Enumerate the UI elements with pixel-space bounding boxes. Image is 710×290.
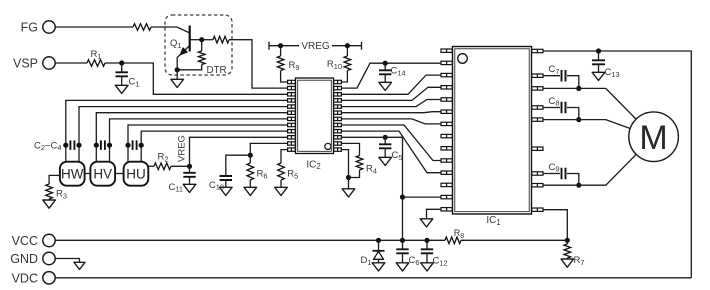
ground (C12) xyxy=(421,263,434,271)
wire GND to ground xyxy=(55,259,79,263)
wire VSP to R1 xyxy=(55,62,87,64)
resistor R2 xyxy=(154,163,171,170)
wire IC1 pin 14 to ground xyxy=(427,209,442,219)
wire HW-HV link xyxy=(85,173,91,175)
node R4 ground xyxy=(346,175,351,180)
node phase V / C8 xyxy=(576,117,581,122)
wire IC2 R12 to ground node xyxy=(341,150,349,178)
capacitor C8 xyxy=(543,107,560,109)
node R6/C10 xyxy=(248,153,253,158)
capacitor C5 xyxy=(384,137,386,144)
node D1 xyxy=(376,238,381,243)
wire VSP to IC2 pin 3 xyxy=(122,63,289,94)
node VREG/R9 xyxy=(278,43,283,48)
hall element HU xyxy=(124,162,149,186)
output resistor of DTR xyxy=(202,39,213,41)
capacitor C11 xyxy=(189,166,191,173)
wire phase V to motor xyxy=(543,120,630,129)
resistor R8 xyxy=(445,237,461,244)
node C12 xyxy=(424,238,429,243)
ground (C5) xyxy=(379,157,392,165)
svg-text:HW: HW xyxy=(61,167,84,182)
node base of Q1 xyxy=(199,37,204,42)
node C13 xyxy=(596,48,601,53)
wire IC2 pin 11 to R6 node xyxy=(250,143,288,155)
wire IC2 R5 to IC1 pin 5 xyxy=(341,100,441,107)
op-amp/driver IC2 package xyxy=(288,78,342,154)
svg-text:FG: FG xyxy=(21,21,38,35)
node hall cap 5 xyxy=(125,143,130,148)
wire DTR output to IC2 pin 2 xyxy=(229,40,289,88)
terminal VDC xyxy=(43,272,55,284)
node C14 xyxy=(383,61,388,66)
svg-text:C2~C4: C2~C4 xyxy=(34,140,62,152)
wire hall bus line 6 xyxy=(141,131,288,162)
svg-text:HV: HV xyxy=(93,167,112,182)
ground (IC1 pin14) xyxy=(420,219,433,227)
node hall cap 2 xyxy=(76,143,81,148)
wire VCC rail xyxy=(55,239,445,241)
resistor R5 xyxy=(278,163,285,180)
resistor R6 xyxy=(249,155,251,163)
terminal VCC xyxy=(43,234,55,246)
base resistor of DTR xyxy=(201,40,203,51)
capacitor C7 xyxy=(543,75,560,77)
capacitor C4 (HU pair) xyxy=(133,140,137,150)
wire hall bus line 5 xyxy=(128,125,289,162)
resistor R7 xyxy=(566,240,568,244)
capacitor C3 (HV pair) xyxy=(101,140,105,150)
ground (R5) xyxy=(275,187,288,195)
transistor Q1 xyxy=(177,26,202,70)
node C6 xyxy=(400,238,405,243)
node R2/C11/VREG xyxy=(187,164,192,169)
capacitor C13 xyxy=(598,51,600,60)
wire IC1 bottom right pin down to R7 node xyxy=(543,210,567,241)
terminal VSP xyxy=(43,57,55,69)
capacitor C12 xyxy=(426,240,428,249)
wire IC2 R6 to IC1 pin 6 xyxy=(341,112,441,113)
ground (C1) xyxy=(115,85,128,93)
node hall cap 3 xyxy=(94,143,99,148)
wire IC2 R10 through C5 down to IC1 pin 13 xyxy=(341,137,403,240)
DTR dashed box xyxy=(165,15,232,75)
wire hall bus line 3 xyxy=(96,113,288,162)
wire IC2 R4 to IC1 pin 4 xyxy=(341,87,441,100)
ground (D1) xyxy=(372,263,385,271)
node hall cap 6 xyxy=(139,143,144,148)
ground (R3) xyxy=(43,200,56,208)
ground (GND terminal) xyxy=(74,262,85,269)
node phase U / C9 xyxy=(576,183,581,188)
svg-text:VDC: VDC xyxy=(12,271,38,285)
terminal FG xyxy=(43,21,55,33)
svg-text:VREG: VREG xyxy=(301,41,330,52)
wire HV-HU link xyxy=(115,173,124,175)
resistor R4 xyxy=(356,156,363,171)
svg-text:DTR: DTR xyxy=(207,65,227,76)
diode D1 (zener to ground) xyxy=(378,240,380,251)
node hall cap 1 xyxy=(63,143,68,148)
wire VDC rail xyxy=(55,277,691,279)
wire IC2 R3 to IC1 pin 3 xyxy=(341,75,441,94)
node hall cap 4 xyxy=(107,143,112,148)
ground (C14) xyxy=(379,82,392,90)
capacitor C14 xyxy=(384,63,386,70)
wire IC2 R11 to R4 xyxy=(341,143,360,155)
node IC1 pin13 branch xyxy=(400,195,405,200)
wire IC2 R9 to IC1 pin 11 xyxy=(341,131,441,173)
motor driver IC1 package xyxy=(441,47,543,215)
ground (C10) xyxy=(220,187,233,195)
node emitter junction xyxy=(175,67,180,72)
resistor R3 xyxy=(46,184,53,199)
wire FG to resistor xyxy=(55,26,133,28)
wire IC2 pin to C14 line to IC1 xyxy=(341,63,441,88)
wire phase W to motor xyxy=(543,88,636,119)
wire hall bus line 1 xyxy=(66,100,289,161)
wire IC2 R8 to IC1 pin 10 xyxy=(341,125,441,161)
wire IC2 R7 to IC1 pin 7 xyxy=(341,119,441,124)
VREG rail xyxy=(269,42,299,50)
resistor R1 xyxy=(87,60,105,67)
resistor R10 xyxy=(346,46,348,56)
resistor R9 xyxy=(280,46,282,56)
hall element HW xyxy=(60,162,85,186)
svg-text:HU: HU xyxy=(126,167,146,182)
resistor (FG series) xyxy=(133,24,151,31)
motor M xyxy=(629,112,679,162)
capacitor C9 xyxy=(543,173,560,175)
capacitor C6 xyxy=(402,240,404,249)
node C5 xyxy=(383,135,388,140)
wire IC2 pin 12 to R5 xyxy=(281,150,289,163)
wire R1 to node xyxy=(105,62,122,64)
capacitor C1 xyxy=(121,63,123,72)
node VSP/C1 xyxy=(119,60,124,65)
wire hall bus line 2 xyxy=(79,107,289,162)
capacitor C2 (HW pair) xyxy=(70,140,74,150)
ground (Q1 emitter) xyxy=(176,70,178,80)
ground (R7) xyxy=(561,259,574,267)
wire resistor to Q1 collector xyxy=(151,27,190,33)
node phase W / C7 xyxy=(576,86,581,91)
svg-text:VSP: VSP xyxy=(13,57,38,71)
svg-text:M: M xyxy=(639,119,667,157)
wire HU to R2 xyxy=(148,165,154,167)
hall element HV xyxy=(90,162,115,186)
wire IC1 top pin along top to right edge, down to VDC rail xyxy=(543,51,691,278)
wire VREG to IC2 pin 10 xyxy=(190,137,289,166)
ground (R4/IC2) xyxy=(342,189,355,197)
wire phase U to motor xyxy=(543,155,636,186)
node VREG/R10 xyxy=(345,43,350,48)
svg-text:GND: GND xyxy=(10,252,38,266)
wire hall bus line 4 xyxy=(110,119,289,162)
capacitor C10 xyxy=(226,155,251,176)
wire HW to R3 xyxy=(49,175,60,184)
ground (C13) xyxy=(592,72,605,80)
ground (C6) xyxy=(396,263,409,271)
svg-text:VREG: VREG xyxy=(176,135,187,162)
node R7 xyxy=(565,238,570,243)
ground (C11) xyxy=(183,184,196,192)
terminal GND xyxy=(43,252,55,264)
ground (R6) xyxy=(244,187,257,195)
svg-text:VCC: VCC xyxy=(12,234,38,248)
